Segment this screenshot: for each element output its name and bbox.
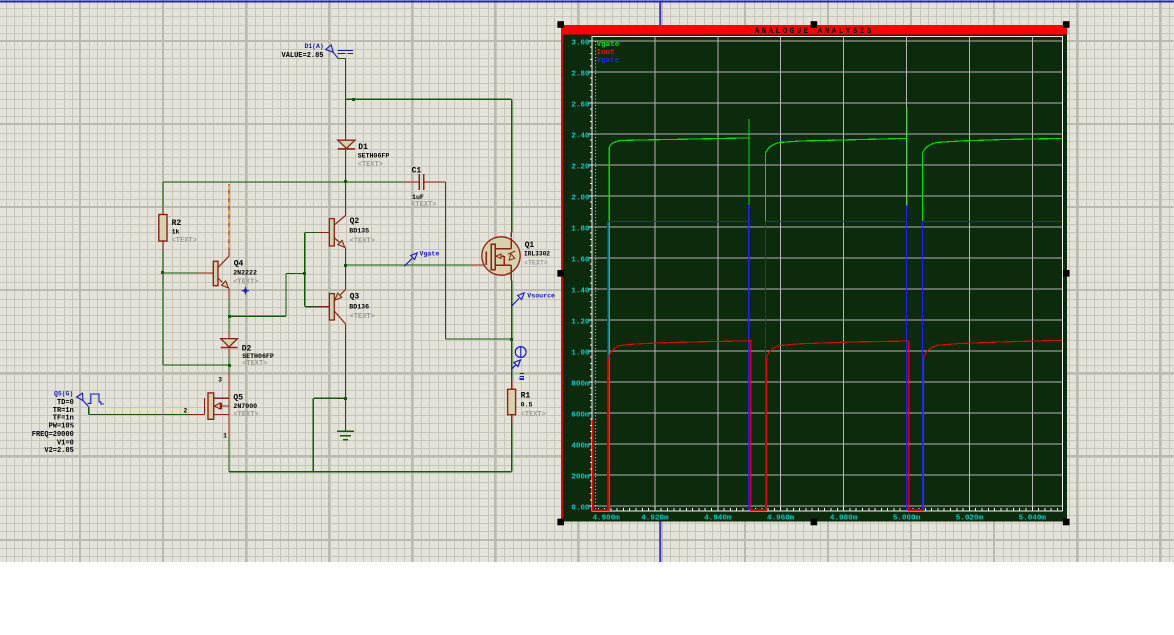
svg-text:Q5: Q5 (233, 393, 243, 402)
svg-text:4.980m: 4.980m (830, 515, 858, 523)
svg-text:BD136: BD136 (349, 303, 369, 310)
svg-text:SETH06FP: SETH06FP (242, 353, 274, 360)
svg-text:2: 2 (183, 407, 187, 414)
svg-text:PW=10%: PW=10% (49, 422, 75, 430)
svg-text:1.40: 1.40 (571, 288, 590, 296)
svg-text:Vgate: Vgate (420, 251, 440, 258)
probe Iout (current) (511, 347, 526, 370)
wire gate row (346, 264, 472, 266)
node on top rail (352, 98, 355, 101)
svg-text:<TEXT>: <TEXT> (233, 278, 258, 286)
svg-text:3: 3 (218, 377, 222, 384)
svg-text:<TEXT>: <TEXT> (233, 411, 258, 419)
svg-text:VALUE=2.85: VALUE=2.85 (282, 52, 324, 60)
node ground branch (344, 397, 347, 400)
cursor dotted line (595, 41, 597, 510)
node source / C1 wire (510, 338, 513, 341)
probe Vsource (511, 293, 524, 306)
svg-text:1k: 1k (172, 229, 180, 236)
graph frame (592, 37, 1062, 511)
sheet border top (blue) (0, 1, 1174, 3)
bottom rail wire (229, 471, 512, 473)
node gate wire / emitters (344, 264, 347, 267)
graph title bar (561, 25, 1067, 35)
svg-text:<TEXT>: <TEXT> (411, 201, 436, 209)
trace Vgate (blue) (593, 205, 1061, 510)
svg-text:<TEXT>: <TEXT> (350, 238, 375, 246)
svg-text:BD135: BD135 (349, 228, 369, 235)
transistor Q1 IRL3302 (482, 237, 520, 275)
svg-text:Vgate: Vgate (597, 57, 620, 65)
svg-text:1.20: 1.20 (571, 319, 590, 327)
trace Iout (red) (592, 340, 1061, 510)
axis ticks (589, 41, 1058, 511)
node R2 bottom / Q4 base (161, 271, 164, 274)
svg-text:R1: R1 (521, 392, 531, 401)
trace Vgate (green) (609, 107, 1062, 510)
svg-text:5.020m: 5.020m (956, 515, 984, 523)
wire base tie (304, 232, 306, 306)
Q4 collector dashed wire (228, 184, 230, 256)
sheet border vertical (blue) (659, 3, 661, 563)
svg-text:600m: 600m (571, 412, 590, 420)
svg-text:FREQ=20000: FREQ=20000 (32, 431, 74, 439)
wire D2 anode (228, 331, 230, 339)
svg-text:R2: R2 (172, 219, 182, 228)
svg-text:Q3: Q3 (350, 293, 360, 302)
svg-text:Vgate: Vgate (597, 41, 620, 49)
node D1 cathode / rail (344, 180, 347, 183)
svg-text:5.040m: 5.040m (1019, 515, 1047, 523)
svg-text:<TEXT>: <TEXT> (524, 259, 548, 266)
svg-text:2.20: 2.20 (571, 164, 590, 172)
svg-text:4.940m: 4.940m (704, 515, 732, 523)
diode D1 SETH06FP (338, 140, 355, 148)
svg-text:D1: D1 (358, 143, 368, 152)
node Q4 emitter / bases branch (228, 315, 231, 318)
svg-text:TF=1n: TF=1n (53, 415, 74, 423)
selection handles (557, 21, 564, 28)
svg-text:5.000m: 5.000m (893, 515, 921, 523)
svg-text:ANALOGUE ANALYSIS: ANALOGUE ANALYSIS (754, 27, 873, 36)
svg-text:IRL3302: IRL3302 (524, 251, 550, 258)
wire generator to Q5 gate (88, 407, 90, 414)
graph gridlines (592, 37, 1062, 511)
wire bases branch (229, 315, 286, 317)
wire top rail to drain (346, 98, 512, 100)
svg-text:2.60: 2.60 (571, 102, 590, 110)
svg-text:4.900m: 4.900m (593, 515, 621, 523)
svg-text:1: 1 (223, 432, 227, 439)
svg-text:TD=0: TD=0 (57, 399, 74, 407)
node D2 cathode / R2 branch (228, 364, 231, 367)
transistor Q3 BD136 (329, 294, 334, 320)
node base tie branch (303, 272, 306, 275)
svg-text:1.60: 1.60 (571, 257, 590, 265)
svg-text:<TEXT>: <TEXT> (242, 360, 267, 368)
wire D1 column (345, 99, 347, 130)
graph window ANALOGUE ANALYSIS (561, 25, 1067, 522)
svg-text:4.960m: 4.960m (767, 515, 795, 523)
svg-text:<TEXT>: <TEXT> (172, 237, 197, 245)
svg-text:Q2: Q2 (350, 217, 360, 226)
svg-text:1.00: 1.00 (571, 350, 590, 358)
wire Q1 drain pin (510, 232, 512, 237)
svg-text:400m: 400m (571, 443, 590, 451)
svg-text:D1(A): D1(A) (305, 43, 324, 50)
transistor Q4 2N2222 (213, 261, 218, 285)
transistor Q2 BD135 (329, 219, 334, 246)
svg-text:2N2222: 2N2222 (233, 270, 257, 277)
svg-text:800m: 800m (571, 381, 590, 389)
svg-text:Q4: Q4 (234, 260, 244, 269)
wire V1 to top rail (338, 58, 346, 60)
svg-text:2.80: 2.80 (571, 71, 590, 79)
probe Vgate (404, 253, 417, 266)
svg-text:<TEXT>: <TEXT> (350, 313, 375, 321)
ground (229, 265, 512, 472)
transistor Q5 2N7000 (208, 393, 214, 419)
svg-text:<TEXT>: <TEXT> (358, 161, 383, 169)
svg-text:0.5: 0.5 (521, 401, 533, 408)
svg-text:SETH06FP: SETH06FP (358, 153, 390, 160)
svg-text:1uF: 1uF (412, 194, 424, 201)
svg-text:3.00: 3.00 (571, 40, 590, 48)
svg-text:Q1: Q1 (525, 241, 535, 250)
svg-text:0.00: 0.00 (571, 505, 590, 513)
svg-text:V2=2.85: V2=2.85 (44, 447, 73, 455)
svg-text:200m: 200m (571, 474, 590, 482)
origin marker (blue cross) (242, 287, 250, 295)
wire Q4 base (163, 272, 199, 274)
svg-text:Vsource: Vsource (527, 292, 555, 299)
svg-text:2N7000: 2N7000 (233, 403, 257, 410)
wire Q1 source column (510, 275, 512, 280)
svg-text:Q5(G): Q5(G) (54, 391, 73, 398)
svg-text:2.00: 2.00 (571, 195, 590, 203)
diode D2 SETH06FP (221, 339, 238, 347)
svg-text:1.80: 1.80 (571, 226, 590, 234)
bootstrap rail wire (163, 181, 404, 183)
wire Q5 drain (228, 371, 230, 398)
wire R2 bottom to D2 column (163, 364, 229, 366)
resistor R2 1k (162, 208, 164, 216)
svg-text:2.40: 2.40 (571, 133, 590, 141)
svg-text:<TEXT>: <TEXT> (521, 411, 546, 419)
wire ground branch jog (313, 397, 345, 399)
svg-text:Iout: Iout (597, 49, 615, 57)
svg-text:4.920m: 4.920m (641, 515, 669, 523)
resistor R1 0.5 (511, 381, 513, 390)
